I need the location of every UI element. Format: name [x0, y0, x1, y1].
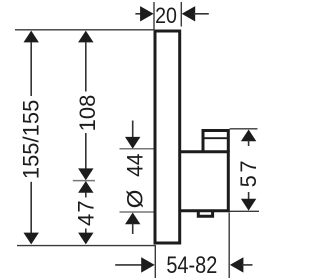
dimension 20: arrow right — [182, 6, 196, 21]
dimension diameter 44: tail top — [132, 121, 134, 138]
dimension 20: line left — [135, 13, 143, 15]
dimension 155/155: line upper — [30, 42, 32, 96]
dimension diameter 44: arrow down at top tick — [125, 137, 140, 149]
extension line 57 bottom — [230, 210, 260, 212]
svg-text:47: 47 — [74, 199, 99, 226]
extension line 57 top — [230, 128, 258, 130]
extension line 20 left — [153, 2, 155, 30]
tick diameter 44 bottom — [120, 211, 154, 213]
tick diameter 44 top — [120, 148, 154, 150]
svg-text:Ø: Ø — [122, 190, 147, 209]
dimension 47: line upper stub — [85, 193, 87, 198]
extension line bottom (for 155/47) — [17, 245, 156, 247]
extension line 54-82 right — [228, 213, 230, 279]
svg-text:155/155: 155/155 — [19, 100, 44, 180]
svg-text:20: 20 — [155, 4, 177, 28]
dimension diameter 44: arrow up at bottom tick — [125, 213, 140, 225]
dimension 47: arrow down — [78, 233, 93, 245]
dimension 155/155: line lower — [30, 182, 32, 234]
tick 108/47 junction — [73, 180, 95, 182]
dimension 155/155: arrow up — [24, 31, 39, 43]
extension line 54-82 left — [154, 246, 156, 278]
dimension 57: arrow up — [241, 130, 256, 142]
dimension 57: line lower stub — [248, 192, 250, 199]
dimension 108: arrow down — [78, 168, 93, 180]
dimension 108: arrow up — [78, 31, 93, 43]
bottom tab — [198, 211, 212, 216]
dimension 54-82: arrow left-pointing — [230, 257, 244, 272]
dimension 54-82: arrow right-pointing — [141, 257, 155, 272]
dimension 57: arrow down — [241, 199, 256, 211]
plate (escutcheon, side view) — [155, 31, 180, 243]
handle step (top cap) — [203, 131, 228, 154]
svg-text:57: 57 — [236, 158, 261, 187]
svg-text:44: 44 — [122, 153, 148, 176]
svg-text:108: 108 — [75, 95, 100, 132]
dimension 20: line right — [194, 13, 209, 15]
dimension diameter 44: tail bottom — [132, 224, 134, 235]
dimension 108: line lower — [85, 133, 87, 169]
dimension 108: line upper — [85, 42, 87, 92]
dimension 54-82: tail right — [242, 264, 253, 266]
step seam line — [204, 137, 227, 139]
dimension 47: arrow up — [78, 181, 93, 193]
dimension 54-82: tail left — [115, 264, 142, 266]
valve body (sleeve) — [180, 152, 228, 211]
svg-text:54-82: 54-82 — [166, 251, 217, 278]
dimension 57: line upper stub — [248, 141, 250, 147]
dimension 47: line lower stub — [85, 229, 87, 234]
extension line 20 right — [180, 2, 182, 27]
dimension 155/155: arrow down — [24, 233, 39, 245]
extension line top (for 155/108) — [15, 29, 155, 31]
dimension 20: arrow left — [140, 6, 154, 21]
